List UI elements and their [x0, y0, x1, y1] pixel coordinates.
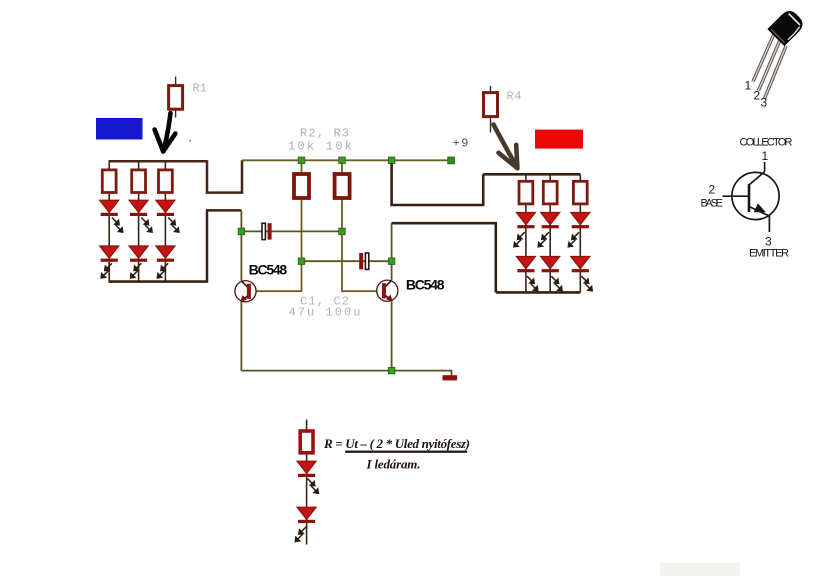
- emitter arrowhead: [754, 203, 766, 212]
- black arrow pointing to left LED bank: [155, 113, 176, 152]
- LED left bank col1 row2: [100, 246, 119, 262]
- LED right bank col1 row1: [516, 213, 535, 229]
- wire R2 branch (rail to Q1 base): [256, 160, 301, 291]
- svg-text:10k 10k: 10k 10k: [288, 140, 352, 154]
- wire left bank bottom rail: [109, 280, 208, 283]
- left bank column 2 wire: [138, 161, 140, 281]
- wire C2 row (R2/Q1-base node to Q2 collector node): [302, 260, 392, 262]
- LED arrows right col3 row2: [581, 276, 592, 291]
- red rectangle marker: [535, 130, 583, 149]
- +9 supply rail wire: [242, 159, 451, 161]
- LED arrows col3 row1: [168, 218, 179, 233]
- right bank column 1 wire: [525, 174, 527, 292]
- resistor R2: [294, 174, 309, 198]
- resistor right bank col1: [519, 181, 533, 204]
- LED right bank col2 row1: [541, 213, 560, 229]
- node C1 / R3 line: [339, 228, 345, 234]
- LED arrows right col2 row2: [551, 276, 562, 291]
- transistor Q2 (BC548, base on left): [377, 280, 398, 301]
- node rail-R3: [339, 157, 345, 163]
- svg-text:+9: +9: [453, 137, 469, 151]
- LED right bank col3 row1: [571, 213, 590, 229]
- left bank column 1 wire: [108, 161, 110, 281]
- right bank column 3 wire: [579, 174, 581, 292]
- LED left bank col2 row2: [129, 246, 148, 262]
- LED formula row2: [297, 507, 316, 523]
- svg-text:BC548: BC548: [249, 262, 288, 278]
- node C2 / Q2 collector: [388, 258, 394, 264]
- LED arrows col1 row1: [112, 218, 123, 233]
- wire detour: left bank top to +9 rail start: [207, 160, 242, 192]
- node R2 line / C2: [298, 258, 304, 264]
- svg-text:BC548: BC548: [406, 277, 445, 293]
- resistor R3: [335, 174, 350, 198]
- LED left bank col1 row1: [100, 200, 119, 216]
- resistor left bank col1: [102, 170, 116, 193]
- LED left bank col3 row1: [156, 200, 175, 216]
- wire Q2 collector to right bank bottom: [392, 223, 496, 292]
- wire Q1 collector vertical: [240, 210, 242, 280]
- svg-text:I ledáram.: I ledáram.: [366, 457, 421, 472]
- wire Q2 collector vertical: [391, 223, 393, 280]
- node rail-R2: [298, 157, 304, 163]
- ground symbol: [443, 375, 458, 380]
- wire ground rail: [241, 371, 451, 376]
- resistor left bank col3: [159, 170, 173, 193]
- LED arrows col2 row1: [141, 218, 152, 233]
- TO-92 leg 1: [753, 34, 774, 82]
- blue rectangle marker: [96, 118, 143, 140]
- wire feed +9 to right bank top: [392, 163, 484, 205]
- resistor left bank col2: [132, 170, 146, 193]
- node +9 rail end: [448, 157, 455, 164]
- resistor right bank col2: [543, 181, 557, 204]
- LED right bank col3 row2: [571, 257, 590, 273]
- wire R3 branch (rail to Q2 base): [342, 160, 377, 291]
- wire right bank top rail: [483, 173, 580, 176]
- right bank column 2 wire: [549, 174, 551, 292]
- svg-text:R1: R1: [193, 82, 208, 96]
- svg-text:1: 1: [762, 149, 769, 163]
- LED arrows col2 row2 (down-left): [131, 263, 142, 278]
- svg-text:BASE: BASE: [701, 198, 724, 210]
- LED formula row1: [297, 461, 316, 477]
- svg-text:R = Ut – ( 2 * Uled nyitófesz): R = Ut – ( 2 * Uled nyitófesz): [323, 436, 470, 451]
- faint dot near R1: [189, 140, 191, 142]
- wire formula LED string: [306, 420, 308, 545]
- LED arrows right col1 row1 (down-left): [514, 232, 525, 247]
- svg-text:2: 2: [709, 183, 716, 197]
- node rail-right-bank feed: [388, 157, 394, 163]
- TO-92 leg 2: [759, 40, 781, 91]
- wire C1 row (Q1 collector node to R3/Q2-base node): [241, 230, 342, 232]
- wire riser: left bank bottom to Q1 collector: [207, 210, 241, 282]
- TO-92 body: [768, 8, 805, 45]
- left bank column 3 wire: [164, 161, 166, 281]
- svg-text:1: 1: [745, 79, 752, 93]
- resistor right bank col3: [573, 181, 587, 204]
- LED arrows right col2 row1 (down-left): [538, 232, 549, 247]
- TO-92 leg 3: [765, 46, 787, 99]
- wire left bank top rail: [109, 160, 208, 163]
- svg-text:2: 2: [754, 89, 761, 103]
- LED right bank col2 row2: [541, 257, 560, 273]
- LED arrows formula row1: [308, 479, 319, 494]
- wire Q1 emitter vertical: [240, 302, 242, 371]
- LED left bank col2 row1: [129, 200, 148, 216]
- capacitor C2: [359, 253, 369, 269]
- svg-text:R2, R3: R2, R3: [300, 127, 349, 141]
- node Q1 collector / C1: [238, 228, 244, 234]
- capacitor C1: [262, 223, 272, 239]
- LED arrows formula row2 (down-left): [295, 527, 306, 542]
- LED arrows right col3 row1 (down-left): [568, 232, 579, 247]
- svg-text:3: 3: [765, 235, 772, 249]
- resistor R (formula): [300, 431, 313, 453]
- wire Q2 emitter vertical: [391, 301, 393, 370]
- svg-text:R4: R4: [507, 90, 522, 104]
- faint smudge bottom right: [660, 563, 740, 576]
- wire right bank bottom rail: [496, 291, 581, 294]
- LED right bank col1 row2: [516, 257, 535, 273]
- dark arrow pointing to right LED bank: [494, 125, 518, 169]
- LED left bank col3 row2: [156, 246, 175, 262]
- formula fraction bar: [345, 451, 467, 453]
- LED arrows right col1 row2: [527, 276, 538, 291]
- resistor R1 (detached, pasted): [169, 77, 183, 118]
- svg-text:EMITTER: EMITTER: [749, 248, 789, 260]
- npn transistor pinout symbol: [723, 162, 780, 232]
- svg-text:3: 3: [761, 96, 768, 110]
- LED arrows col3 row2 (down-left): [157, 263, 168, 278]
- transistor Q1 (BC548, base on right): [235, 281, 256, 302]
- LED arrows col1 row2 (down-left): [101, 263, 112, 278]
- resistor R4 (detached, pasted): [484, 86, 498, 133]
- node ground / Q2 emitter: [388, 367, 394, 373]
- svg-text:COLLECTOR: COLLECTOR: [740, 137, 793, 149]
